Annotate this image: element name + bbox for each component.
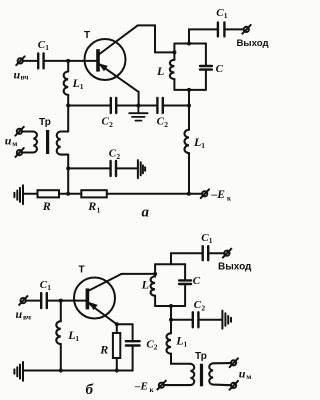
chassis ground mid (a) <box>138 160 145 178</box>
bottom wire segment 1 (a) <box>23 193 38 195</box>
label C2 left (a) <box>102 116 114 130</box>
input terminal uvch (a) <box>16 56 24 65</box>
output terminal (b) <box>223 249 231 258</box>
label C1 (b) <box>40 279 51 292</box>
label C1 output (b) <box>201 232 213 245</box>
wire emitter down (a) <box>138 92 140 106</box>
inductor L1 (b left) <box>56 321 61 344</box>
svg-text:–E: –E <box>134 381 148 393</box>
capacitor C2 emitter (b) <box>126 341 140 345</box>
transformer right winding (a) <box>57 132 68 155</box>
wire L1 to transformer (b) <box>171 354 191 364</box>
transformer Tp label (b) <box>195 351 207 362</box>
node base junction (b) <box>59 299 63 303</box>
resistor R1 (a) <box>81 190 107 197</box>
wire emitter to R (b) <box>116 324 118 333</box>
svg-text:1: 1 <box>201 141 205 150</box>
capacitor C tank (a) <box>200 66 212 70</box>
terminal um top (a) <box>15 127 23 136</box>
label C2 emitter (b) <box>146 338 157 351</box>
label C2 right (a) <box>157 116 169 130</box>
capacitor C2 ground (b) <box>193 312 199 327</box>
inductor L1 (b right) <box>166 333 171 353</box>
lower bypass wire (a) <box>68 167 110 169</box>
node bottom junction (a) <box>66 192 70 196</box>
label Vykhod (a) <box>237 38 269 49</box>
svg-text:Тр: Тр <box>195 351 207 362</box>
svg-text:1: 1 <box>97 205 101 214</box>
wire collector path (b) <box>122 273 156 275</box>
transistor T (a) <box>85 25 139 92</box>
wire C2 branch down (b) <box>132 324 134 341</box>
svg-text:L: L <box>67 328 75 342</box>
label C1 input (a) <box>38 39 49 52</box>
svg-text:б: б <box>86 382 94 398</box>
svg-text:2: 2 <box>109 120 113 129</box>
wire collector path (a) <box>138 25 175 52</box>
wire R to bottom (b) <box>116 358 118 371</box>
output terminal (a) <box>242 25 250 34</box>
label R (b) <box>99 342 108 356</box>
label C2 ground (b) <box>194 299 206 312</box>
label u_m (a) <box>5 133 18 147</box>
chassis ground bottom left (b) <box>14 362 23 381</box>
wire C2 branch to bottom (b) <box>117 346 133 371</box>
node lower bypass junction (a) <box>66 166 70 170</box>
node C2 branch junction (b) <box>169 318 173 322</box>
svg-text:L: L <box>156 64 164 78</box>
svg-text:u: u <box>14 68 21 82</box>
tank left branch upper (b) <box>154 264 156 276</box>
svg-text:u: u <box>5 133 12 147</box>
svg-text:2: 2 <box>154 343 158 352</box>
capacitor C1 input (a) <box>38 53 43 68</box>
label u_m (b) <box>239 366 252 381</box>
bottom wire segment 2 (a) <box>59 193 81 195</box>
terminal um bottom (b) <box>230 381 238 390</box>
node L1 bottom (b) <box>59 369 63 373</box>
wire C2 to chassis ground (a) <box>116 167 137 169</box>
chassis ground right (b) <box>222 311 231 329</box>
label R (a) <box>42 199 51 213</box>
bottom wire segment 3 (a) <box>107 193 202 195</box>
label Vykhod (b) <box>218 262 252 273</box>
svg-text:u: u <box>16 307 23 321</box>
capacitor C2 lower (a) <box>111 161 116 176</box>
node tank top (a) <box>187 42 191 46</box>
capacitor C2 left (a) <box>111 98 116 113</box>
svg-text:u: u <box>239 366 246 380</box>
svg-text:Тр: Тр <box>39 117 51 128</box>
wire input to C1 (b) <box>26 300 41 302</box>
capacitor C1 (b) <box>41 293 47 308</box>
node base junction (a) <box>66 59 70 63</box>
svg-text:1: 1 <box>184 339 188 348</box>
tank top wire (a) <box>174 43 206 45</box>
label u_vch (b) <box>16 307 32 322</box>
svg-text:2: 2 <box>164 120 168 129</box>
wire L1 to bottom (b) <box>60 344 62 371</box>
svg-text:C: C <box>216 63 224 75</box>
svg-text:м: м <box>246 372 251 381</box>
tank bottom wire (a) <box>174 89 206 91</box>
wire C1 to base (b) <box>47 300 87 302</box>
wire base to L1 (b left) <box>60 301 62 322</box>
capacitor C1 output (b) <box>203 246 209 260</box>
capacitor C2 right (a) <box>157 98 162 113</box>
wire emitter to C2 branch (b) <box>117 323 133 325</box>
input terminal uvch (b) <box>19 296 27 305</box>
node bypass left (a) <box>66 104 70 108</box>
wire tank bottom down (b) <box>170 306 172 333</box>
svg-text:–E: –E <box>211 189 226 201</box>
node collector tap (b) <box>153 272 157 276</box>
node tank bottom (b) <box>169 304 173 308</box>
terminal -Ek (b) <box>157 381 165 390</box>
inductor L tank (b) <box>151 277 156 296</box>
svg-text:2: 2 <box>116 152 120 161</box>
label u_vch (a) <box>14 68 30 82</box>
label L tank (a) <box>156 64 164 78</box>
inductor L1 left (a) <box>64 72 69 95</box>
node tank bottom (a) <box>187 88 191 92</box>
svg-text:L: L <box>175 333 183 347</box>
svg-text:1: 1 <box>45 43 49 52</box>
label a <box>142 205 150 221</box>
tank right branch lower (b) <box>184 284 186 306</box>
label L1 right (a) <box>193 135 205 150</box>
svg-text:R: R <box>99 342 108 356</box>
svg-text:2: 2 <box>201 303 205 312</box>
node emitter ground junction (a) <box>136 104 140 108</box>
tank left branch upper (a) <box>173 44 175 60</box>
resistor R (b) <box>113 333 120 358</box>
svg-text:L: L <box>72 76 80 90</box>
bypass wire right segment (a) <box>163 105 189 107</box>
ground under emitter (a) <box>129 106 147 121</box>
wire C1 to output terminal (a) <box>224 28 243 30</box>
svg-text:1: 1 <box>47 283 51 292</box>
transformer left winding (b) <box>164 364 194 385</box>
svg-text:T: T <box>84 30 90 41</box>
wire C1 to output terminal (b) <box>208 252 224 254</box>
label -Ek (b) <box>134 381 155 395</box>
svg-text:T: T <box>79 265 85 276</box>
label L1 (b right) <box>175 333 187 348</box>
transformer right winding (b) <box>209 363 231 385</box>
transformer left winding (a) <box>23 132 37 153</box>
resistor R (a) <box>38 190 60 197</box>
svg-text:а: а <box>142 205 150 221</box>
label L tank (b) <box>141 278 149 292</box>
svg-text:L: L <box>193 135 201 149</box>
wire C1 to base (a) <box>44 60 98 62</box>
bypass wire mid segment (a) <box>116 105 157 107</box>
tank left branch lower (a) <box>173 79 175 90</box>
label -Ek (a) <box>211 189 233 203</box>
svg-text:C: C <box>193 275 201 287</box>
wire tank top to output C1 (b) <box>171 253 202 264</box>
label T (a) <box>84 30 90 41</box>
wire tank top to output C1 (a) <box>189 29 217 43</box>
svg-text:1: 1 <box>80 82 84 91</box>
bottom wire (b) <box>23 370 117 372</box>
wire L1 to bottom (a) <box>188 153 190 194</box>
label R1 (a) <box>87 199 100 214</box>
capacitor C tank (b) <box>179 280 191 284</box>
svg-text:L: L <box>141 278 149 292</box>
label C1 output (a) <box>216 7 228 20</box>
label C2 lower (a) <box>109 147 121 161</box>
terminal um bottom (a) <box>15 148 23 157</box>
transformer core (b) <box>200 364 203 387</box>
chassis ground bottom left (a) <box>14 185 23 204</box>
transistor T (b) <box>74 274 122 324</box>
svg-text:1: 1 <box>209 236 213 245</box>
transformer Tp label (a) <box>39 117 51 128</box>
bypass wire left segment (a) <box>68 105 110 107</box>
label L1 left (a) <box>72 76 84 91</box>
svg-text:вч: вч <box>21 73 30 82</box>
label C tank (b) <box>193 275 201 287</box>
svg-text:Выход: Выход <box>237 38 269 49</box>
wire base junction to L1 left (a) <box>67 61 69 72</box>
transformer core (a) <box>46 130 49 154</box>
tank bottom wire (b) <box>155 305 185 307</box>
node collector tap (a) <box>172 50 176 54</box>
svg-text:м: м <box>12 139 17 148</box>
capacitor C1 output (a) <box>218 22 225 36</box>
wire junction to C2 (b) <box>171 319 192 321</box>
label T (b) <box>79 265 85 276</box>
node emitter junction (b) <box>115 322 119 326</box>
svg-text:1: 1 <box>75 334 79 343</box>
tank top wire (b) <box>155 263 185 265</box>
wire input to C1 (a) <box>23 60 38 62</box>
inductor L1 right (a) <box>184 130 189 153</box>
label b <box>86 382 94 398</box>
tank right branch lower (a) <box>205 70 207 90</box>
svg-text:вч: вч <box>23 313 32 322</box>
node R bottom (b) <box>115 369 119 373</box>
label C tank (a) <box>216 63 224 75</box>
svg-text:Выход: Выход <box>218 262 252 273</box>
wire feed below tank (a) <box>188 90 190 130</box>
svg-text:R: R <box>42 199 51 213</box>
wire winding to lower bypass (a) <box>67 155 69 194</box>
tank left branch lower (b) <box>154 296 156 306</box>
tank right branch upper (a) <box>205 44 207 67</box>
inductor L tank (a) <box>170 60 175 79</box>
wire L1 to transformer (a) <box>67 95 69 132</box>
svg-text:R: R <box>87 199 96 213</box>
svg-text:1: 1 <box>224 11 228 20</box>
tank right branch upper (b) <box>184 264 186 280</box>
node bottom right junction (a) <box>187 192 191 196</box>
node bypass right (a) <box>187 104 191 108</box>
terminal um top (b) <box>230 358 238 367</box>
wire C2 to chassis ground (b) <box>198 319 221 321</box>
terminal -Ek (a) <box>201 189 209 198</box>
label L1 (b left) <box>67 328 79 343</box>
